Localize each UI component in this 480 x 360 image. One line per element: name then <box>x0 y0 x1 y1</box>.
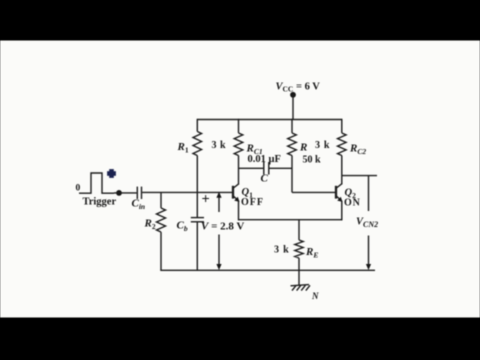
white schematic area <box>0 41 480 318</box>
transistor Q1 base bar <box>232 186 234 199</box>
wire R1 bottom lead to base node <box>196 156 198 193</box>
wire RE bottom lead <box>298 258 300 270</box>
wire RC2 bottom lead to Q2 collector <box>341 156 343 185</box>
svg-text:3 k: 3 k <box>212 140 227 151</box>
svg-text:Trigger: Trigger <box>83 196 117 207</box>
wire coupling cap left <box>239 167 264 169</box>
wire top supply bus <box>197 119 341 121</box>
trigger pulse waveform <box>79 173 114 193</box>
resistor RE <box>295 240 303 258</box>
svg-text:0: 0 <box>76 184 81 194</box>
capacitor Cin plates <box>136 187 138 199</box>
resistor RC2 <box>338 133 347 156</box>
capacitor C plates <box>263 162 265 175</box>
svg-text:C: C <box>261 173 269 185</box>
wire Q1 emitter lead <box>238 201 240 220</box>
wire R2 bottom lead <box>160 232 162 270</box>
wire Cb bottom lead <box>196 222 198 270</box>
wire Cb top lead <box>196 192 198 217</box>
svg-text:3 k: 3 k <box>274 245 289 256</box>
wire RC2 top lead <box>341 119 343 133</box>
wire R top lead <box>291 119 293 133</box>
svg-text:3 k: 3 k <box>315 140 330 151</box>
wire ground stub <box>298 270 300 285</box>
wire Q2 base from R <box>292 191 336 193</box>
svg-text:N: N <box>311 291 319 301</box>
svg-text:50 k: 50 k <box>303 155 322 166</box>
arrow V2.8 up <box>218 196 220 212</box>
transistor Q2 base bar <box>335 186 337 199</box>
resistor R 50k <box>288 133 297 156</box>
Vcc node dot <box>290 92 296 98</box>
ground (earth hatch) <box>291 285 311 291</box>
wire R1 top lead <box>196 119 198 132</box>
svg-text:+: + <box>202 192 210 208</box>
wire RC1 bottom lead to Q1 collector <box>238 156 240 185</box>
svg-text:R: R <box>299 142 307 154</box>
resistor RC1 <box>234 133 243 156</box>
transistor Q1 collector <box>233 184 239 189</box>
trigger annotation plus (navy) <box>107 169 116 178</box>
wire Q2 emitter lead <box>341 201 343 220</box>
transistor Q2 emitter with arrow <box>336 196 342 202</box>
svg-text:V = 2.8 V: V = 2.8 V <box>201 221 244 233</box>
node trigger junction dot <box>116 190 122 196</box>
wire emitter coupling bus <box>239 219 342 221</box>
wire coupling cap right <box>269 167 292 169</box>
transistor Q1 emitter with arrow <box>233 196 239 202</box>
arrow VCN2 down <box>368 236 370 266</box>
capacitor Cb plates <box>191 217 204 219</box>
svg-text:OFF: OFF <box>241 197 264 208</box>
wire trigger to Cin <box>114 192 137 194</box>
resistor R2 <box>157 208 166 232</box>
arrow VCN2 top segment <box>368 176 370 211</box>
wire RC1 top lead <box>238 119 240 133</box>
svg-text:ON: ON <box>344 197 361 208</box>
wire Q2 collector output <box>342 175 377 177</box>
arrow V2.8 down <box>218 235 220 266</box>
wire R bottom lead down to Q2 base corner <box>291 156 293 193</box>
wire ground bus <box>160 269 375 271</box>
svg-text:VCC = 6 V: VCC = 6 V <box>276 82 321 94</box>
wire base node (Cin to Q1 base) <box>142 191 233 193</box>
transistor Q2 collector <box>336 184 342 189</box>
resistor R1 <box>193 132 202 156</box>
wire RE top lead <box>298 220 300 240</box>
resistor R2 top lead <box>160 192 162 208</box>
wire Vcc feed <box>292 95 294 120</box>
